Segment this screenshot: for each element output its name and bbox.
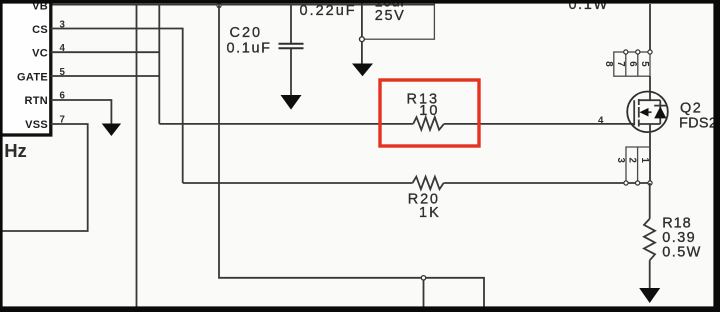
channel bar segments	[638, 99, 640, 105]
wire RTN pin6 right then down	[51, 100, 112, 124]
svg-text:C20: C20	[230, 25, 263, 41]
svg-text:3: 3	[615, 158, 626, 164]
pin circles	[624, 50, 628, 54]
svg-text:8: 8	[603, 61, 614, 67]
transistor Q2 MOSFET	[627, 92, 668, 133]
svg-text:0.1uF: 0.1uF	[227, 41, 272, 57]
svg-text:7: 7	[615, 61, 626, 66]
pin circles	[624, 181, 628, 185]
svg-text:0.5W: 0.5W	[662, 244, 701, 260]
wire source pins down to R18	[649, 183, 651, 219]
svg-text:GATE: GATE	[17, 71, 48, 83]
wire gate line from vertical to MOSFET gate	[159, 123, 413, 125]
wire VB bus along top	[50, 4, 434, 6]
svg-text:5: 5	[639, 61, 650, 67]
IC U? box (partially offscreen left)	[0, 0, 51, 135]
svg-text:25V: 25V	[375, 8, 406, 24]
svg-text:1K: 1K	[419, 205, 441, 221]
wire drain pin box to mosfet	[649, 76, 651, 92]
node junction dot at box lower-left	[361, 4, 363, 39]
resistor R20 zigzag	[413, 177, 444, 190]
screen border right	[713, 0, 720, 312]
screen border bottom	[0, 306, 720, 312]
wire R20 line right segment to source pins	[444, 182, 650, 184]
wire vertical from VB bus down to gate line at x=159.3	[158, 4, 160, 124]
svg-text:4: 4	[598, 115, 604, 126]
source pin group pins 3 2 1	[615, 147, 652, 185]
node junction dot at top bar x=219	[217, 4, 221, 8]
wire R18 to ground	[649, 260, 651, 289]
wire VC pin4 to vertical	[51, 51, 160, 53]
wire R20 line left segment	[183, 182, 413, 184]
wire vertical from VB bus down to bottom bar at x=136.5	[136, 4, 138, 307]
wire source from mosfet to source pin box	[649, 132, 651, 183]
wire drop from bottom wire junction to bottom bar	[423, 280, 425, 308]
highlight red box around R13	[380, 80, 479, 146]
svg-text:RTN: RTN	[24, 95, 48, 107]
ground arrow below R18	[639, 288, 660, 303]
resistor R18 zigzag vertical	[644, 219, 655, 260]
node junction dot on bottom wire	[421, 276, 425, 280]
drain pin group box pins 8 7 6 5	[603, 50, 652, 76]
wire gate line right of R13	[444, 123, 634, 125]
body diode	[659, 100, 661, 124]
screen border top	[0, 0, 720, 4]
capacitor C20 0.1uF	[279, 4, 304, 96]
svg-text:Hz: Hz	[4, 140, 27, 161]
resistor R13 zigzag	[413, 117, 444, 130]
body arrow	[640, 108, 649, 117]
drain internal	[639, 92, 650, 100]
svg-text:0.22uF: 0.22uF	[300, 3, 357, 19]
ground arrow below capacitor	[281, 95, 302, 110]
wire vertical from VB bus down then right bottom wire at x=219	[219, 4, 484, 307]
gate bar	[633, 100, 635, 125]
wire from junction down	[361, 42, 363, 65]
svg-text:1: 1	[639, 158, 650, 164]
ground arrow below 25V box	[352, 64, 373, 77]
ground arrow at RTN	[102, 124, 121, 137]
screen border left	[0, 0, 3, 312]
svg-text:VSS: VSS	[25, 119, 48, 131]
svg-text:2: 2	[627, 158, 638, 163]
svg-text:6: 6	[627, 61, 638, 67]
component box 10uF 25V	[362, 0, 435, 39]
wire CS pin3 right then down to R20 line	[51, 29, 183, 184]
wire VSS pin7 right, down, left offscreen	[0, 124, 88, 231]
svg-text:Q2: Q2	[680, 100, 702, 116]
svg-text:10: 10	[419, 103, 439, 119]
wire GATE pin5 to vertical	[51, 75, 160, 77]
wire drain from top bus down	[649, 4, 651, 52]
svg-text:CS: CS	[32, 24, 48, 36]
source internal	[639, 123, 661, 125]
svg-text:VC: VC	[32, 48, 48, 60]
